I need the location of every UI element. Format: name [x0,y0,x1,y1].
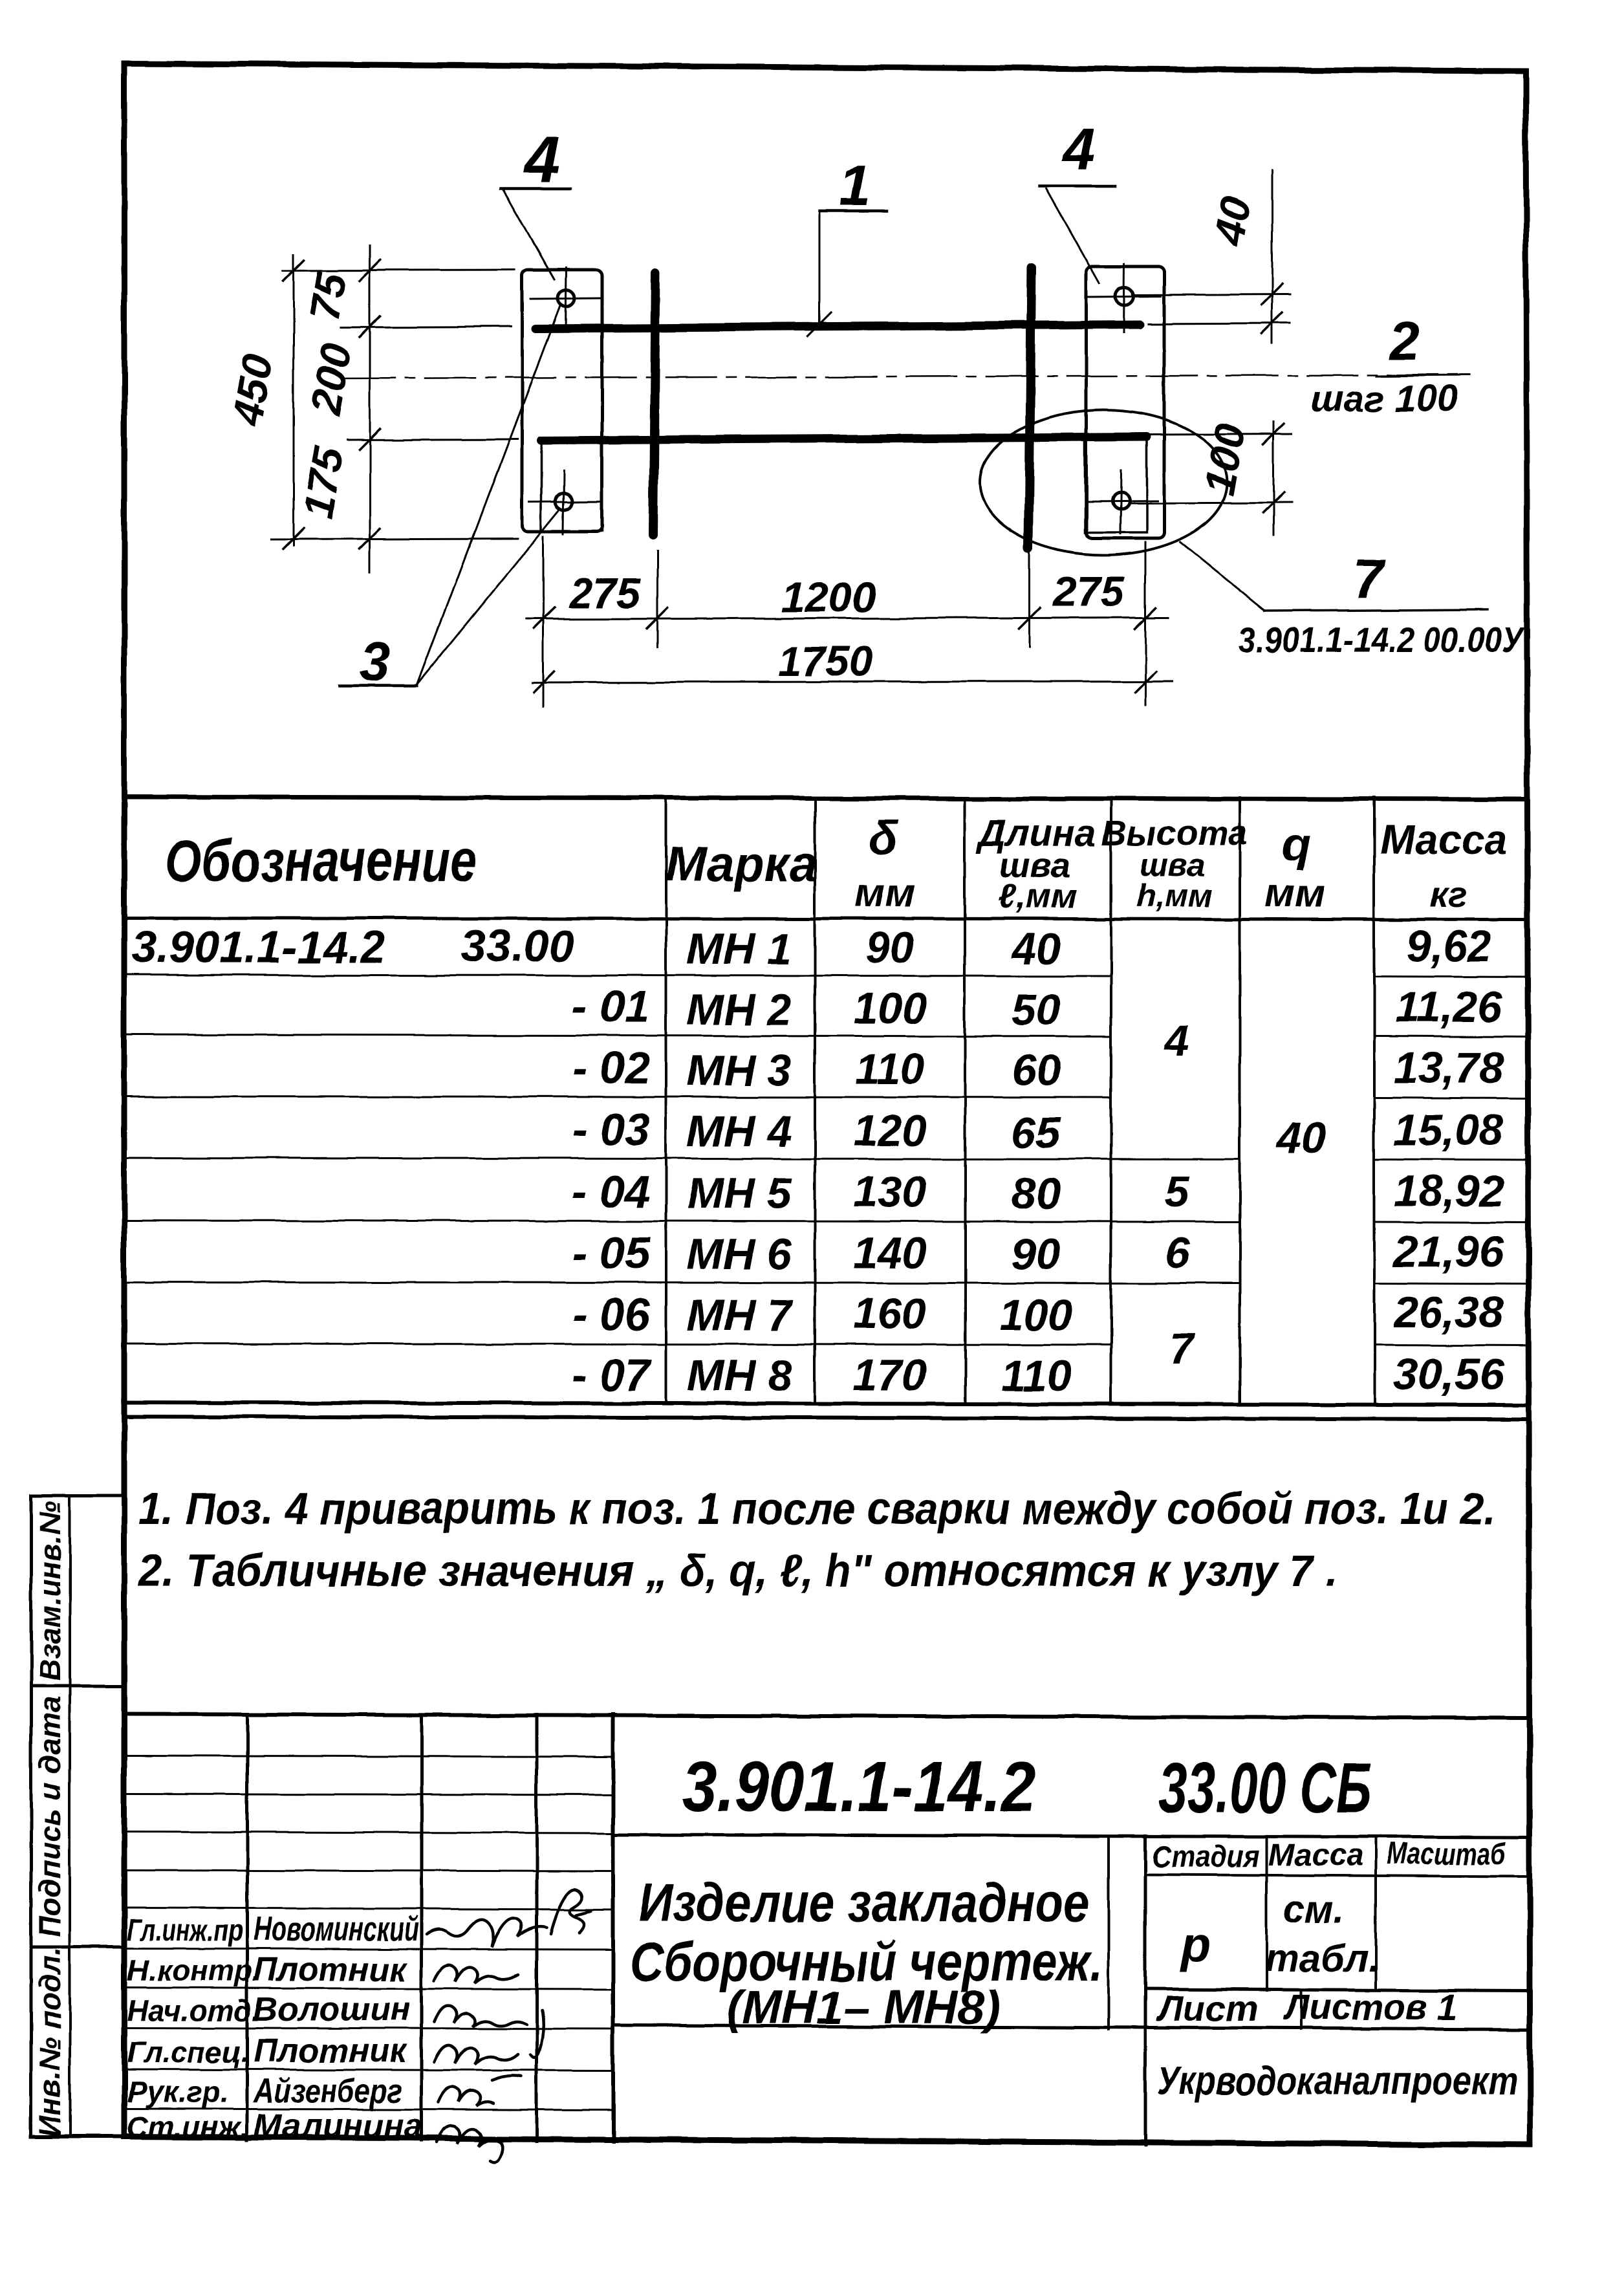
dim ticks left [283,260,380,549]
svg-text:- 06: - 06 [572,1289,651,1340]
signature row2 [435,1965,519,1983]
svg-text:Листов 1: Листов 1 [1282,1986,1458,2027]
svg-text:МН 6: МН 6 [687,1230,793,1279]
svg-text:4: 4 [1164,1016,1189,1065]
svg-text:Нач.отд.: Нач.отд. [127,1994,260,2027]
dim line 1750 [532,681,1173,682]
hole right-top [1115,287,1133,305]
svg-text:1750: 1750 [778,637,873,685]
name cell bottom [613,2025,1526,2029]
svg-text:3.901.1-14.2: 3.901.1-14.2 [131,922,385,972]
callout 7 shelf [1265,609,1487,611]
dim 40 right [1132,294,1290,295]
svg-text:- 04: - 04 [572,1166,650,1217]
side column divider 2 [31,1946,124,1949]
table bottom second rule [124,1417,1526,1419]
callout 2 shelf [1376,375,1469,376]
svg-text:110: 110 [855,1045,926,1094]
svg-text:МН 3: МН 3 [687,1046,792,1095]
plate left (pos 4) [522,270,602,532]
svg-text:Подпись и дата: Подпись и дата [33,1696,67,1937]
vertical right section [1144,1836,1147,2145]
svg-text:МН 4: МН 4 [687,1107,792,1156]
center axis line [345,375,1466,378]
signature row5 [438,2087,493,2106]
svg-text:33.00: 33.00 [460,920,574,971]
svg-text:100: 100 [999,1290,1073,1340]
svg-text:120: 120 [853,1106,927,1155]
svg-text:33.00 СБ: 33.00 СБ [1159,1748,1372,1828]
svg-text:26,38: 26,38 [1392,1288,1504,1337]
svg-text:Н.контр.: Н.контр. [127,1953,261,1987]
svg-text:- 07: - 07 [572,1350,652,1400]
vertical stadia/massa [1265,1837,1268,1990]
svg-text:Гл.спец.: Гл.спец. [127,2035,250,2069]
dim line 275/1200/275 [526,618,1168,619]
signature grid row lines [124,1908,613,2110]
svg-text:80: 80 [1012,1169,1061,1218]
svg-text:кг: кг [1430,874,1467,915]
table top border [124,797,1526,799]
svg-text:Рук.гр.: Рук.гр. [127,2075,229,2109]
svg-text:Стадия: Стадия [1152,1840,1259,1874]
column line Vysota/q [1239,798,1241,1404]
svg-text:Ст.инж.: Ст.инж. [127,2110,249,2144]
stadia header underline [1145,1875,1526,1876]
callout 4 left [501,187,570,190]
svg-text:40: 40 [1204,193,1260,249]
svg-text:- 02: - 02 [572,1043,650,1093]
anchor rod pos2 right [1028,268,1031,549]
svg-text:МН 8: МН 8 [687,1351,792,1400]
svg-text:МН 5: МН 5 [687,1169,793,1218]
column line q/Massa [1373,798,1376,1404]
svg-text:мм: мм [1265,871,1325,916]
svg-text:9,62: 9,62 [1406,922,1492,971]
svg-text:90: 90 [865,923,915,972]
svg-text:см.: см. [1284,1887,1345,1931]
plate left bent-bar outline [541,438,602,531]
svg-text:Гл.инж.пр: Гл.инж.пр [127,1913,243,1947]
svg-text:130: 130 [853,1168,927,1217]
svg-text:Инв.№ подл.: Инв.№ подл. [33,1948,67,2137]
svg-text:МН 7: МН 7 [687,1290,794,1340]
svg-text:1. Поз. 4 приварить к поз. 1 п: 1. Поз. 4 приварить к поз. 1 после сварк… [138,1483,1495,1534]
svg-text:4: 4 [1061,116,1095,182]
svg-text:90: 90 [1012,1230,1061,1279]
dim ticks bottom [534,608,1156,692]
vertical massa/masshtab [1374,1838,1377,1990]
svg-text:65: 65 [1012,1108,1061,1157]
side column frame [30,1495,33,2137]
vertical main divider [611,1715,615,2141]
svg-text:Изделие закладное: Изделие закладное [639,1872,1090,1933]
table bottom [124,1402,1526,1405]
signature row3 [435,2006,526,2027]
svg-text:Укрводоканалпроект: Укрводоканалпроект [1158,2059,1518,2104]
svg-text:140: 140 [853,1228,927,1278]
dim line 450 [293,254,295,546]
svg-text:30,56: 30,56 [1394,1350,1504,1399]
anchor rod pos2 left [653,273,656,535]
svg-text:3: 3 [360,631,391,692]
svg-text:q: q [1282,819,1310,871]
svg-text:18,92: 18,92 [1394,1166,1504,1215]
hole right-bottom [1112,492,1129,509]
svg-text:табл.: табл. [1264,1937,1379,1980]
column line Oboznachenie/Marka [665,798,667,1404]
plate right (pos 4) [1087,266,1164,538]
svg-text:р: р [1180,1917,1211,1972]
svg-text:275: 275 [568,569,641,617]
vertical sign/date [536,1715,539,2141]
svg-text:21,96: 21,96 [1392,1227,1504,1276]
svg-text:Масштаб: Масштаб [1387,1837,1506,1871]
svg-text:ℓ,мм: ℓ,мм [998,877,1077,916]
svg-text:Волошин: Волошин [254,1991,410,2028]
r row bottom [1145,1989,1526,1991]
svg-text:3.901.1-14.2 00.00У: 3.901.1-14.2 00.00У [1239,619,1526,660]
hole left-top [558,290,574,307]
dim 100 right [1148,434,1292,435]
bar pos1 bottom [541,437,1147,440]
callout 1 [819,210,887,213]
dim line 75/200/175 [369,246,371,572]
svg-text:1: 1 [839,153,871,217]
svg-text:50: 50 [1012,985,1061,1034]
plate right bent-bar outline [1085,439,1147,532]
big number row bottom [613,1834,1526,1837]
svg-text:Малинина: Малинина [254,2107,422,2145]
svg-text:- 01: - 01 [572,981,650,1032]
svg-text:Взам.инв.№: Взам.инв.№ [33,1501,67,1681]
svg-text:Масса: Масса [1268,1838,1363,1873]
svg-text:4: 4 [523,124,560,196]
svg-text:2. Табличные значения „ δ, q,: 2. Табличные значения „ δ, q, ℓ, h" отно… [137,1545,1337,1596]
hole left-bottom [556,493,572,510]
svg-text:Плотник: Плотник [254,1951,408,1988]
svg-text:100: 100 [853,984,927,1033]
column line Marka/delta [814,798,816,1404]
signature row6 [437,2126,503,2162]
title block top [124,1714,1526,1718]
svg-text:5: 5 [1165,1168,1190,1217]
callout 4 right [1040,185,1115,188]
svg-text:275: 275 [1052,567,1125,615]
table header bottom [124,918,1526,920]
vertical right section inner [1107,1836,1110,2029]
svg-text:шаг 100: шаг 100 [1310,378,1458,420]
row lines [124,975,1526,1345]
svg-text:160: 160 [853,1289,927,1338]
svg-text:- 03: - 03 [572,1104,650,1155]
bar pos1 top [536,325,1140,329]
signature grid thin rows [124,1756,613,1871]
svg-text:11,26: 11,26 [1395,983,1502,1032]
svg-text:Плотник: Плотник [254,2032,408,2070]
svg-text:Обозначение: Обозначение [165,828,477,894]
svg-text:Айзенберг: Айзенберг [252,2072,402,2110]
svg-text:40: 40 [1275,1113,1326,1162]
side column divider 1 [31,1684,124,1688]
vertical name/sign [420,1715,424,2140]
svg-text:3.901.1-14.2: 3.901.1-14.2 [682,1747,1036,1827]
dim chain left: extension lines [283,270,514,270]
svg-text:40: 40 [1010,924,1061,973]
svg-text:7: 7 [1169,1324,1196,1373]
svg-text:7: 7 [1354,549,1386,609]
svg-text:6: 6 [1165,1228,1190,1278]
dim bottom: extension lines [543,537,545,707]
callout 3 [340,684,417,688]
svg-text:110: 110 [1001,1351,1072,1400]
svg-text:170: 170 [853,1351,927,1400]
svg-text:1200: 1200 [781,573,876,621]
svg-text:(МН1– МН8): (МН1– МН8) [726,1982,1001,2034]
column line delta/Dlina [964,798,966,1404]
svg-text:Масса: Масса [1380,816,1507,863]
svg-text:13,78: 13,78 [1394,1043,1504,1093]
detail circle node 7 [980,410,1227,555]
border frame [124,63,1530,2145]
vertical list/listov [1300,1990,1303,2029]
signature row4 [435,2045,517,2065]
svg-text:75: 75 [300,268,356,323]
svg-text:h,мм: h,мм [1136,878,1213,914]
svg-text:Лист: Лист [1156,1988,1258,2028]
svg-text:Новоминский: Новоминский [254,1911,419,1948]
svg-text:МН 1: МН 1 [687,924,792,973]
svg-text:δ: δ [869,812,898,864]
svg-text:2: 2 [1389,310,1420,371]
svg-text:15,08: 15,08 [1394,1105,1504,1155]
column line Dlina/Vysota [1110,798,1112,1404]
svg-text:60: 60 [1012,1046,1061,1095]
vertical role/name [246,1715,249,2140]
svg-text:МН 2: МН 2 [687,985,792,1034]
signature row1 [427,1918,547,1947]
svg-text:- 05: - 05 [572,1228,651,1278]
svg-text:мм: мм [855,871,915,916]
svg-text:Марка: Марка [666,837,817,892]
